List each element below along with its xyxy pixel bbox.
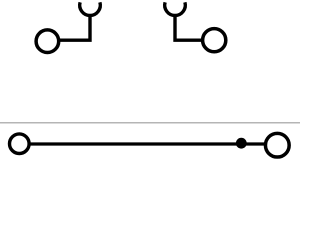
wire L from top-left circle up to left socket <box>59 15 90 41</box>
bottom feed-through wire <box>30 142 264 145</box>
terminal clamp circle (bottom-right) <box>265 133 289 157</box>
junction dot <box>236 138 247 149</box>
socket contact (left fork) <box>80 2 101 15</box>
socket contact (right fork) <box>165 2 186 15</box>
terminal clamp circle (top-right) <box>203 29 226 52</box>
rail line (gray separator) <box>0 122 300 124</box>
terminal clamp circle (bottom-left) <box>9 134 29 154</box>
terminal clamp circle (top-left) <box>36 30 59 53</box>
wire L from right socket down to top-right circle <box>175 15 202 41</box>
